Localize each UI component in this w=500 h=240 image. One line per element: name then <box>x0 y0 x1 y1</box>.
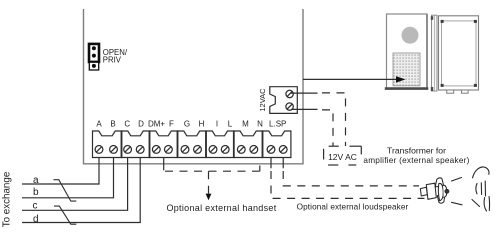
svg-text:amplifier (external speaker): amplifier (external speaker) <box>363 156 469 165</box>
svg-text:b: b <box>33 187 39 198</box>
svg-text:B: B <box>110 120 115 129</box>
svg-text:L.SP: L.SP <box>269 120 286 129</box>
jumper J1 OPEN/PRIV <box>89 44 99 70</box>
wire: line a to terminal A <box>22 158 99 185</box>
svg-text:N: N <box>257 120 263 129</box>
svg-text:12VAC: 12VAC <box>258 88 267 112</box>
back box <box>439 16 479 90</box>
svg-text:I: I <box>216 120 218 129</box>
pair slash mark c/d <box>54 206 76 224</box>
terminal strip X1 <box>93 131 291 158</box>
svg-text:M: M <box>242 120 249 129</box>
microphone grille <box>393 53 420 86</box>
svg-text:H: H <box>199 120 205 129</box>
12VAC connector <box>270 87 298 114</box>
panel side view <box>432 15 438 91</box>
loudspeaker wire upper <box>283 171 419 186</box>
handset dashed bracket <box>165 170 260 172</box>
horn loudspeaker sketch <box>420 178 449 203</box>
svg-text:L: L <box>228 120 233 129</box>
main unit enclosure <box>84 9 304 164</box>
wire: line c to terminal C <box>22 158 128 211</box>
svg-text:Optional external handset: Optional external handset <box>166 203 276 213</box>
horn bell sketch lower <box>472 200 480 207</box>
svg-text:F: F <box>169 120 174 129</box>
terminal screws <box>95 146 287 154</box>
wire: line b to terminal B <box>22 158 114 198</box>
svg-text:Transformer for: Transformer for <box>387 145 446 155</box>
handset arrow <box>208 171 210 193</box>
horn bell sketch upper <box>473 167 490 178</box>
svg-text:PRIV: PRIV <box>103 56 122 65</box>
svg-text:A: A <box>96 120 102 129</box>
loudspeaker wire stubs <box>270 158 272 169</box>
pair slash mark a/b <box>54 180 77 201</box>
speaker arrow line <box>303 78 397 80</box>
loudspeaker wire lower <box>271 171 425 198</box>
wire: AC feed lower <box>291 108 318 110</box>
terminal labels <box>96 120 286 129</box>
svg-text:Optional external loudspeaker: Optional external loudspeaker <box>297 202 409 211</box>
svg-text:G: G <box>184 120 190 129</box>
svg-text:d: d <box>33 214 39 225</box>
transformer 12V AC dashed box <box>324 146 362 165</box>
svg-text:C: C <box>124 120 130 129</box>
horn projection dashes <box>452 167 490 211</box>
svg-text:D: D <box>138 120 144 129</box>
svg-text:To exchange: To exchange <box>2 171 13 227</box>
svg-text:DM+: DM+ <box>148 120 165 129</box>
svg-text:a: a <box>33 175 39 186</box>
wire: line d to terminal D <box>22 158 140 223</box>
svg-text:c: c <box>33 201 38 212</box>
speaker hole <box>402 27 419 44</box>
svg-text:12V AC: 12V AC <box>328 152 357 162</box>
horn bell sketch middle <box>476 184 477 194</box>
door station front panel <box>387 14 428 89</box>
wire: AC feed upper <box>291 92 318 94</box>
handset bracket tick <box>163 158 165 171</box>
